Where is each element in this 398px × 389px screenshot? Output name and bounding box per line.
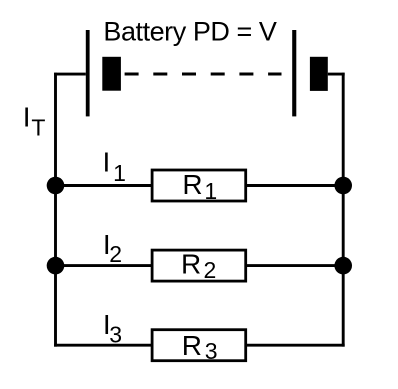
junction node left rail / branch 2 [47,257,65,275]
label I1 [103,146,126,185]
svg-text:3: 3 [109,321,122,347]
wire right rail (vertical) [342,73,345,347]
resistor R3 [152,330,246,361]
resistor R1 [152,170,246,201]
label R3 [182,330,218,364]
battery B1 right cell thick negative plate [310,57,328,91]
battery B1 left cell thick negative plate [102,57,121,91]
svg-text:I: I [103,146,111,177]
dashed wire between battery cells [125,73,282,76]
resistor R2 [152,250,246,281]
label R1 [182,169,217,204]
label R2 [181,249,216,284]
svg-text:R: R [182,169,202,200]
wire branch 2 [56,264,344,267]
junction node left rail / branch 1 [47,177,65,195]
svg-text:3: 3 [205,338,218,364]
junction node right rail / branch 1 [334,177,352,195]
wire left rail (vertical) [54,73,57,347]
svg-text:R: R [181,249,201,280]
battery B1 right cell long positive plate [292,30,296,116]
label I2 [103,229,122,267]
svg-text:2: 2 [109,241,122,267]
wire battery right plate to right rail [328,73,345,76]
svg-text:R: R [182,330,202,361]
junction node right rail / branch 2 [334,257,352,275]
svg-text:Battery PD = V: Battery PD = V [103,16,276,46]
label I3 [103,309,122,348]
wire branch 3 (bottom return) [54,344,345,347]
svg-text:T: T [31,114,45,140]
wire left rail top to battery left plate [54,73,86,76]
svg-text:1: 1 [204,178,217,204]
svg-text:2: 2 [204,257,217,283]
svg-text:I: I [23,101,31,132]
label I_T [23,101,46,140]
svg-text:1: 1 [113,160,126,186]
wire branch 1 [56,184,344,187]
battery B1 left cell long positive plate [86,30,90,116]
